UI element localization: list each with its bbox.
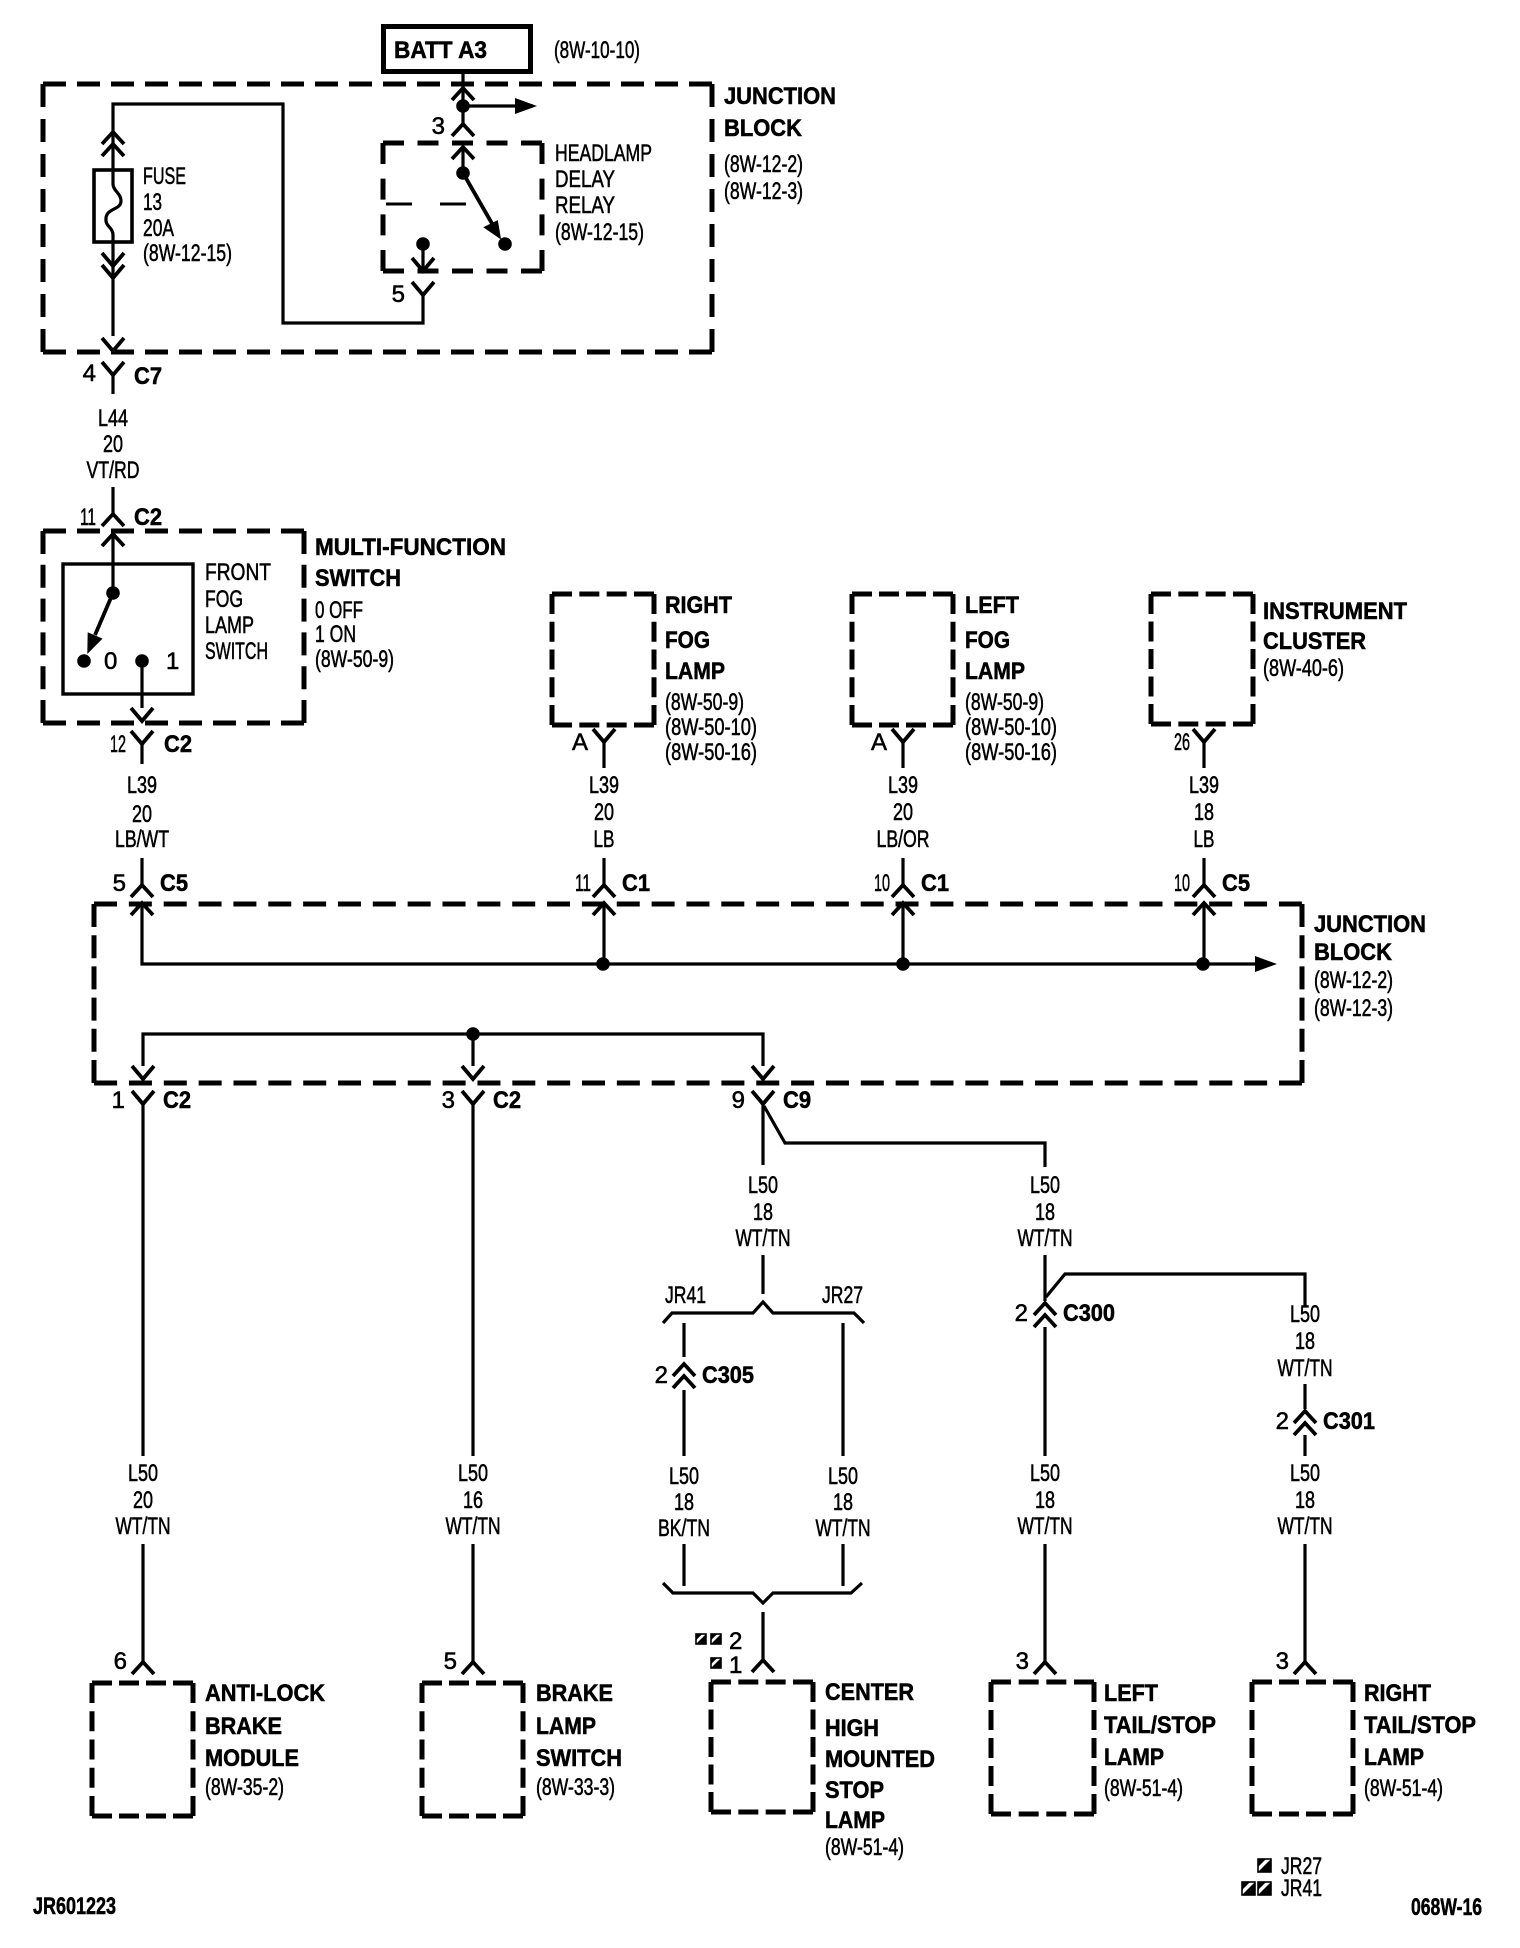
svg-text:(8W-50-9): (8W-50-9) xyxy=(665,689,744,716)
svg-text:L50: L50 xyxy=(1290,1301,1320,1328)
svg-text:CENTER: CENTER xyxy=(825,1679,914,1706)
svg-text:L50: L50 xyxy=(828,1463,858,1490)
svg-text:C1: C1 xyxy=(921,870,949,897)
svg-text:SWITCH: SWITCH xyxy=(536,1745,622,1772)
connector C305 chevron 2 xyxy=(673,1376,695,1388)
svg-text:3: 3 xyxy=(1016,1648,1029,1675)
svg-text:(8W-50-9): (8W-50-9) xyxy=(315,646,394,673)
svg-text:(8W-50-16): (8W-50-16) xyxy=(965,739,1057,766)
brake lamp switch outline xyxy=(422,1683,523,1816)
bus junction left fog xyxy=(896,957,910,971)
svg-text:JUNCTION: JUNCTION xyxy=(1314,911,1426,938)
svg-text:STOP: STOP xyxy=(825,1777,884,1804)
svg-text:LB/OR: LB/OR xyxy=(877,826,930,853)
svg-text:3: 3 xyxy=(432,113,445,140)
svg-text:TAIL/STOP: TAIL/STOP xyxy=(1364,1712,1476,1739)
svg-text:L50: L50 xyxy=(1030,1172,1060,1199)
svg-text:A: A xyxy=(871,729,887,756)
svg-text:(8W-35-2): (8W-35-2) xyxy=(205,1774,284,1801)
svg-text:5: 5 xyxy=(444,1648,457,1675)
connector fork above relay pin 3 xyxy=(452,124,474,136)
svg-text:2: 2 xyxy=(655,1362,668,1389)
wire JR41 branch upper xyxy=(682,1323,685,1357)
svg-text:L39: L39 xyxy=(127,772,157,799)
connector Y C2 pin 1 xyxy=(132,1091,154,1104)
connector fork C5 pin 5 xyxy=(131,885,153,897)
svg-text:(8W-50-16): (8W-50-16) xyxy=(665,739,757,766)
svg-text:LB/WT: LB/WT xyxy=(115,826,169,853)
JB2 entry chevron pin 5 xyxy=(131,903,153,915)
splice legend squares JR41 xyxy=(1242,1882,1271,1895)
wire relay pin5 loop to fuse xyxy=(113,104,423,323)
relay pin 5 contact xyxy=(416,237,430,251)
relay common contact xyxy=(456,166,470,180)
connector fork C5 pin 10 xyxy=(1193,885,1215,897)
svg-text:FOG: FOG xyxy=(965,627,1010,654)
svg-text:18: 18 xyxy=(1035,1199,1055,1226)
svg-text:BLOCK: BLOCK xyxy=(1314,939,1393,966)
svg-text:(8W-50-10): (8W-50-10) xyxy=(665,714,757,741)
svg-text:DELAY: DELAY xyxy=(555,166,615,193)
svg-text:LB: LB xyxy=(1194,826,1215,853)
relay coil divider dash xyxy=(386,203,466,206)
connector Y pin 26 cluster xyxy=(1193,729,1215,742)
svg-text:C2: C2 xyxy=(134,504,162,531)
svg-text:(8W-51-4): (8W-51-4) xyxy=(1104,1775,1183,1802)
svg-text:C300: C300 xyxy=(1063,1300,1115,1327)
JB2 entry chevron pin 10 C5 xyxy=(1193,903,1215,915)
wire WT/TN to C300 xyxy=(1043,1255,1046,1301)
wire L39 LB/OR to C1 pin 10 xyxy=(901,858,904,885)
merge bracket into stop lamp xyxy=(663,1583,862,1603)
wire from JB1 entry to relay pin 3 fork xyxy=(461,88,464,124)
svg-text:C2: C2 xyxy=(164,731,192,758)
svg-text:L50: L50 xyxy=(128,1460,158,1487)
JB2 exit arrowhead pin 3 xyxy=(462,1066,484,1079)
MFS exit arrowhead pin 12 xyxy=(131,708,153,721)
JB2 wire from pin5 to bus xyxy=(142,903,1272,964)
svg-text:4: 4 xyxy=(83,360,96,387)
junction block JB1 outline xyxy=(43,84,712,352)
fuse bottom clip chevron 2 xyxy=(102,265,124,278)
connector fork C2 pin 11 xyxy=(102,514,124,526)
svg-text:MULTI-FUNCTION: MULTI-FUNCTION xyxy=(315,534,506,561)
svg-text:WT/TN: WT/TN xyxy=(1278,1513,1333,1540)
svg-text:A: A xyxy=(572,729,588,756)
connector C301 chevron 2 xyxy=(1294,1423,1316,1435)
svg-text:10: 10 xyxy=(1174,870,1190,897)
lower bus junction to pin 3 xyxy=(466,1027,480,1041)
svg-text:C1: C1 xyxy=(622,870,650,897)
svg-text:18: 18 xyxy=(833,1489,853,1516)
svg-text:20: 20 xyxy=(103,431,123,458)
relay switch blade with arrowhead xyxy=(463,173,494,227)
svg-text:MOUNTED: MOUNTED xyxy=(825,1746,935,1773)
svg-text:(8W-12-15): (8W-12-15) xyxy=(143,240,232,267)
svg-text:BRAKE: BRAKE xyxy=(205,1713,282,1740)
connector C300 chevron 1 xyxy=(1034,1303,1056,1315)
switch wiper pivot xyxy=(106,586,120,600)
connector fork left tail pin 3 xyxy=(1034,1662,1056,1674)
svg-text:C9: C9 xyxy=(783,1087,811,1114)
svg-text:FOG: FOG xyxy=(665,627,710,654)
connector fork C1 pin 11 xyxy=(593,885,615,897)
svg-text:BK/TN: BK/TN xyxy=(658,1515,710,1542)
wire L39 to C5 pin 5 xyxy=(140,858,143,885)
JB2 exit arrowhead pin 9 xyxy=(752,1066,774,1079)
svg-text:LAMP: LAMP xyxy=(665,658,725,685)
connector Y pin A left fog xyxy=(892,729,914,742)
svg-text:ANTI-LOCK: ANTI-LOCK xyxy=(205,1680,326,1707)
svg-text:0: 0 xyxy=(104,648,117,675)
svg-text:C2: C2 xyxy=(163,1087,191,1114)
svg-text:068W-16: 068W-16 xyxy=(1411,1894,1482,1921)
svg-text:CLUSTER: CLUSTER xyxy=(1263,628,1366,655)
svg-text:(8W-50-9): (8W-50-9) xyxy=(965,689,1044,716)
svg-text:10: 10 xyxy=(874,870,890,897)
wire C301 to right tail lamp upper xyxy=(1303,1435,1306,1456)
svg-text:LAMP: LAMP xyxy=(1104,1744,1164,1771)
connector fork ABS pin 6 xyxy=(132,1662,154,1674)
JB2 lower bus wire xyxy=(143,1034,763,1066)
svg-text:MODULE: MODULE xyxy=(205,1745,299,1772)
battery feed BATT A3 box xyxy=(384,27,531,72)
wire L44 to C2 pin 11 xyxy=(111,487,114,514)
left tail/stop lamp outline xyxy=(991,1682,1094,1814)
svg-text:WT/TN: WT/TN xyxy=(816,1515,871,1542)
fuse 13 20A body xyxy=(94,170,132,242)
svg-text:16: 16 xyxy=(463,1487,483,1514)
svg-text:LAMP: LAMP xyxy=(825,1807,885,1834)
relay NO contact xyxy=(498,237,512,251)
svg-text:HEADLAMP: HEADLAMP xyxy=(555,140,652,167)
svg-text:RELAY: RELAY xyxy=(555,192,615,219)
svg-text:(8W-50-10): (8W-50-10) xyxy=(965,714,1057,741)
switch contact 1 xyxy=(135,654,149,668)
svg-text:3: 3 xyxy=(442,1087,455,1114)
svg-text:C5: C5 xyxy=(160,870,188,897)
left fog lamp outline xyxy=(852,594,953,725)
svg-text:2: 2 xyxy=(1276,1408,1289,1435)
connector Y pin A right fog xyxy=(593,729,615,742)
svg-text:RIGHT: RIGHT xyxy=(665,592,732,619)
svg-text:12: 12 xyxy=(110,731,126,758)
connector C301 chevron 1 xyxy=(1294,1411,1316,1423)
arrow fused B+ feed continues xyxy=(515,98,537,114)
junction node on BATT feed xyxy=(456,99,470,113)
connector Y C9 pin 9 xyxy=(752,1091,774,1104)
JB2 exit arrowhead pin 1 xyxy=(132,1066,154,1079)
svg-text:13: 13 xyxy=(143,189,162,216)
svg-text:RIGHT: RIGHT xyxy=(1364,1680,1431,1707)
svg-text:L39: L39 xyxy=(1189,772,1219,799)
svg-text:L50: L50 xyxy=(1290,1460,1320,1487)
wire L39 LB to C1 pin 11 xyxy=(602,858,605,885)
anti-lock brake module outline xyxy=(92,1683,193,1816)
bus junction right fog xyxy=(596,957,610,971)
svg-text:VT/RD: VT/RD xyxy=(87,457,140,484)
svg-text:C2: C2 xyxy=(493,1087,521,1114)
wire BATT A3 down into junction block xyxy=(461,74,464,87)
wire C2 pin1 to ABS module lower xyxy=(141,1544,144,1662)
svg-text:(8W-12-3): (8W-12-3) xyxy=(1314,995,1393,1022)
svg-text:WT/TN: WT/TN xyxy=(736,1225,791,1252)
wire right fog tail xyxy=(602,742,605,768)
svg-text:WT/TN: WT/TN xyxy=(446,1513,501,1540)
wire C2 pin3 to brake lamp switch lower xyxy=(471,1544,474,1662)
wire C2 pin12 tail xyxy=(140,744,143,764)
svg-text:(8W-51-4): (8W-51-4) xyxy=(1364,1775,1443,1802)
connector fork C1 pin 10 xyxy=(892,885,914,897)
svg-text:18: 18 xyxy=(1194,799,1214,826)
connector fork right tail pin 3 xyxy=(1294,1662,1316,1674)
JB2 entry chevron pin 11 C1 xyxy=(593,903,615,915)
JB2 drop right fog xyxy=(602,903,605,964)
svg-text:5: 5 xyxy=(392,281,405,308)
svg-text:(8W-12-15): (8W-12-15) xyxy=(555,219,644,246)
svg-text:5: 5 xyxy=(113,870,126,897)
svg-text:LEFT: LEFT xyxy=(965,592,1019,619)
wire cluster tail xyxy=(1202,742,1205,768)
wire JR41 branch lower xyxy=(682,1390,685,1456)
svg-text:WT/TN: WT/TN xyxy=(1278,1355,1333,1382)
wire branch to fused B+ arrow xyxy=(463,104,533,107)
svg-text:L39: L39 xyxy=(589,772,619,799)
connector Y C7 pin 4 xyxy=(102,362,124,375)
svg-text:JR41: JR41 xyxy=(665,1282,706,1309)
fuse bottom clip chevron 1 xyxy=(102,253,124,266)
svg-text:11: 11 xyxy=(80,504,96,531)
connector C305 chevron 1 xyxy=(673,1364,695,1376)
svg-text:TAIL/STOP: TAIL/STOP xyxy=(1104,1712,1216,1739)
wire C9 branch diagonal to C300 run xyxy=(764,1106,1045,1167)
svg-text:2: 2 xyxy=(1015,1300,1028,1327)
connector fork stop lamp pin 1 xyxy=(752,1660,774,1672)
svg-text:JR41: JR41 xyxy=(1281,1875,1322,1902)
wire merge bracket to stop lamp pin xyxy=(761,1612,764,1660)
MFS wire entry to wiper pivot xyxy=(111,534,114,593)
front fog lamp switch box xyxy=(63,564,193,694)
svg-text:FOG: FOG xyxy=(205,586,243,613)
svg-text:BLOCK: BLOCK xyxy=(724,115,803,142)
svg-text:L50: L50 xyxy=(458,1460,488,1487)
svg-text:C5: C5 xyxy=(1222,870,1250,897)
svg-text:18: 18 xyxy=(753,1199,773,1226)
svg-text:0 OFF: 0 OFF xyxy=(315,597,363,624)
svg-text:BATT A3: BATT A3 xyxy=(394,37,487,64)
JB2 entry chevron pin 10 C1 xyxy=(892,903,914,915)
svg-text:JR601223: JR601223 xyxy=(33,1893,116,1920)
JB2 drop to pin 3 C2 xyxy=(471,1034,474,1066)
svg-text:1: 1 xyxy=(729,1652,742,1679)
JB1 exit arrowhead pin 4 xyxy=(102,338,124,351)
junction block JB2 outline xyxy=(94,904,1302,1083)
svg-text:18: 18 xyxy=(1035,1487,1055,1514)
svg-text:WT/TN: WT/TN xyxy=(1018,1513,1073,1540)
MFS pin 11 entry chevron xyxy=(102,534,124,546)
svg-text:INSTRUMENT: INSTRUMENT xyxy=(1263,598,1407,625)
svg-text:2: 2 xyxy=(729,1628,742,1655)
svg-text:6: 6 xyxy=(114,1648,127,1675)
svg-text:(8W-12-2): (8W-12-2) xyxy=(724,151,803,178)
switch wiper arm with arrowhead xyxy=(95,593,113,635)
svg-text:1: 1 xyxy=(112,1087,125,1114)
svg-text:(8W-12-2): (8W-12-2) xyxy=(1314,967,1393,994)
svg-text:FUSE: FUSE xyxy=(143,163,186,190)
svg-text:(8W-40-6): (8W-40-6) xyxy=(1263,655,1344,682)
svg-text:LAMP: LAMP xyxy=(536,1713,596,1740)
wire switch contact 1 down xyxy=(140,661,143,708)
right fog lamp outline xyxy=(552,594,654,725)
wire left fog tail xyxy=(901,742,904,768)
svg-text:(8W-12-3): (8W-12-3) xyxy=(724,178,803,205)
connector Y C2 pin 12 xyxy=(131,731,153,744)
connector chevron into JB1 below BATT A3 xyxy=(452,88,474,100)
svg-text:L44: L44 xyxy=(98,405,128,432)
splice marker square for pin 1 xyxy=(711,1658,721,1668)
wire C300 to left tail lamp lower xyxy=(1043,1544,1046,1662)
wire branch to C301 with corner xyxy=(1046,1274,1305,1306)
wire into JR splice bracket xyxy=(761,1255,764,1294)
headlamp delay relay outline xyxy=(383,143,542,271)
splice bracket JR41/JR27 xyxy=(663,1302,864,1323)
wire C301 to right tail lamp lower xyxy=(1303,1544,1306,1662)
relay wire contact to pin 5 xyxy=(421,244,424,268)
svg-text:L50: L50 xyxy=(748,1172,778,1199)
svg-text:C305: C305 xyxy=(702,1362,754,1389)
connector fork brake switch pin 5 xyxy=(462,1662,484,1674)
svg-text:20: 20 xyxy=(132,801,152,828)
svg-text:C301: C301 xyxy=(1323,1408,1375,1435)
svg-text:18: 18 xyxy=(674,1489,694,1516)
splice legend square JR27 xyxy=(1258,1859,1271,1872)
svg-text:18: 18 xyxy=(1295,1487,1315,1514)
wire BK/TN to merge bracket xyxy=(682,1544,685,1586)
relay pin 3 entry chevron xyxy=(452,147,474,159)
JB2 drop cluster xyxy=(1202,903,1205,964)
svg-text:FRONT: FRONT xyxy=(205,559,271,586)
svg-text:L50: L50 xyxy=(1030,1460,1060,1487)
svg-text:9: 9 xyxy=(732,1087,745,1114)
wire L39 LB to C5 pin 10 xyxy=(1202,858,1205,885)
svg-text:BRAKE: BRAKE xyxy=(536,1680,613,1707)
svg-text:20A: 20A xyxy=(143,215,174,242)
svg-text:LAMP: LAMP xyxy=(1364,1744,1424,1771)
svg-text:C7: C7 xyxy=(134,363,162,390)
svg-text:WT/TN: WT/TN xyxy=(116,1513,171,1540)
right tail/stop lamp outline xyxy=(1252,1682,1353,1814)
splice marker squares for pin 2 xyxy=(696,1634,721,1644)
fuse top clip chevron 2 xyxy=(102,144,124,156)
svg-text:LEFT: LEFT xyxy=(1104,1680,1158,1707)
wire below fuse to JB1 bottom xyxy=(111,242,114,336)
svg-text:(8W-51-4): (8W-51-4) xyxy=(825,1834,904,1861)
svg-text:20: 20 xyxy=(133,1487,153,1514)
svg-text:JUNCTION: JUNCTION xyxy=(724,83,836,110)
svg-text:HIGH: HIGH xyxy=(825,1715,879,1742)
relay pin 5 exit arrowhead xyxy=(412,258,434,271)
svg-text:LB: LB xyxy=(594,826,615,853)
svg-text:SWITCH: SWITCH xyxy=(205,638,268,665)
svg-text:WT/TN: WT/TN xyxy=(1018,1225,1073,1252)
svg-text:(8W-10-10): (8W-10-10) xyxy=(554,37,640,64)
center high mounted stop lamp outline xyxy=(711,1682,813,1812)
svg-text:1 ON: 1 ON xyxy=(315,621,356,648)
switch contact 0 xyxy=(77,654,91,668)
svg-text:3: 3 xyxy=(1276,1648,1289,1675)
wire C9 to JR splice vertical xyxy=(761,1104,764,1165)
svg-text:L39: L39 xyxy=(888,772,918,799)
svg-text:26: 26 xyxy=(1174,729,1190,756)
svg-text:(8W-33-3): (8W-33-3) xyxy=(536,1774,615,1801)
connector C300 chevron 2 xyxy=(1034,1315,1056,1327)
svg-text:11: 11 xyxy=(575,870,591,897)
svg-text:SWITCH: SWITCH xyxy=(315,565,401,592)
wire WT/TN to C301 xyxy=(1303,1384,1306,1409)
relay internal wire pin3 to contact xyxy=(461,147,464,173)
wire C2 pin3 to brake lamp switch upper xyxy=(471,1104,474,1456)
wire C300 to left tail lamp upper xyxy=(1043,1327,1046,1456)
svg-text:LAMP: LAMP xyxy=(965,658,1025,685)
wire C7 tail xyxy=(111,375,114,394)
JB2 drop left fog xyxy=(901,903,904,964)
svg-text:JR27: JR27 xyxy=(822,1282,863,1309)
instrument cluster outline xyxy=(1151,594,1253,724)
connector Y C2 pin 3 xyxy=(462,1091,484,1104)
wire WT/TN to merge bracket xyxy=(841,1544,844,1586)
wire JR27 branch xyxy=(841,1323,844,1456)
arrow fog lamp bus continues xyxy=(1255,956,1277,972)
multi-function switch outline xyxy=(43,531,304,723)
svg-text:20: 20 xyxy=(893,799,913,826)
svg-text:18: 18 xyxy=(1295,1328,1315,1355)
svg-text:1: 1 xyxy=(166,648,179,675)
fuse top clip chevron 1 xyxy=(102,132,124,144)
wire C2 pin1 to ABS module upper xyxy=(141,1104,144,1456)
svg-text:L50: L50 xyxy=(669,1463,699,1490)
connector Y below relay pin 5 xyxy=(412,282,434,295)
svg-text:20: 20 xyxy=(594,799,614,826)
svg-text:LAMP: LAMP xyxy=(205,612,254,639)
bus junction cluster xyxy=(1196,957,1210,971)
